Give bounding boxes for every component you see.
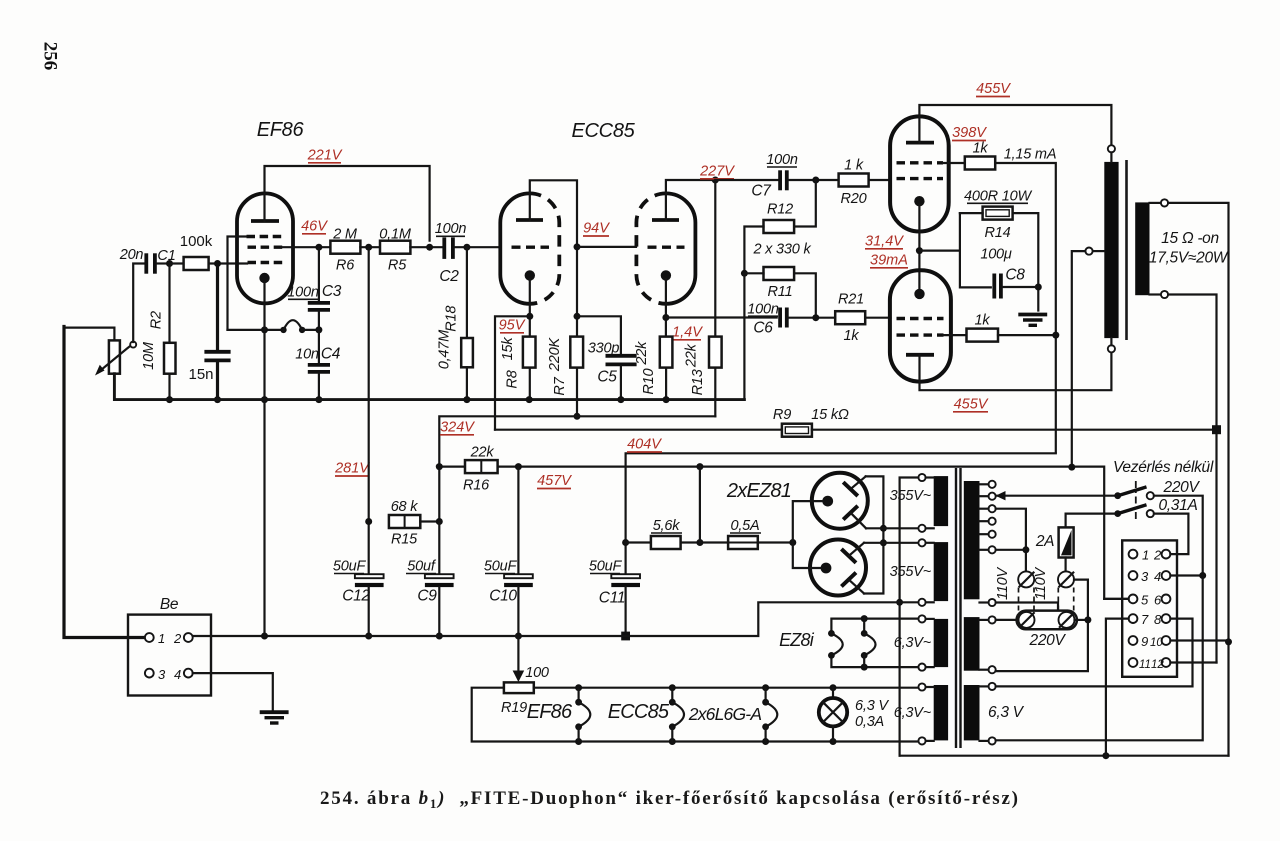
svg-text:C11: C11 (599, 590, 625, 607)
svg-text:46V: 46V (301, 219, 328, 235)
svg-text:7: 7 (1141, 612, 1149, 627)
wire upper plate to 455V line (919, 105, 1111, 145)
wire pins 11-12 to secondary bottom (1170, 661, 1216, 663)
ground bus rail (193, 602, 900, 639)
label 2xEZ81 (726, 480, 791, 502)
resistor R14 400R (919, 189, 1041, 311)
svg-text:R10: R10 (641, 368, 657, 394)
svg-text:R15: R15 (391, 532, 418, 548)
svg-text:R19: R19 (501, 700, 527, 716)
svg-text:100μ: 100μ (980, 247, 1012, 263)
svg-text:EF86: EF86 (527, 701, 573, 723)
label EF86 tube name (257, 119, 305, 141)
resistor R10 22k (634, 337, 672, 404)
bottom frame ground return (900, 638, 1232, 759)
capacitor C6 100n (747, 302, 835, 337)
wire triode1 plate to R7 top (530, 180, 581, 336)
svg-text:10M: 10M (141, 341, 157, 370)
svg-text:3: 3 (158, 667, 166, 682)
svg-text:11: 11 (1139, 659, 1151, 671)
svg-text:22k: 22k (470, 445, 495, 461)
svg-text:355V~: 355V~ (890, 488, 932, 504)
resistor R7 220K (547, 337, 583, 420)
svg-text:17,5V≈20W: 17,5V≈20W (1149, 250, 1229, 267)
potentiometer R19 100 hum balance (501, 636, 549, 716)
wire lower plate 455V to transformer (920, 352, 1112, 390)
terminal row 11 12 (1129, 658, 1171, 671)
rectifier EZ81 upper (812, 473, 868, 529)
capacitor C3 100n screen bypass (287, 247, 342, 330)
wire switch2 to pins 1-2 (1154, 514, 1189, 555)
capacitor C8 (994, 267, 1038, 299)
svg-text:100n: 100n (435, 221, 467, 237)
label 95V (499, 318, 526, 334)
wire switch2 to 2A fuse (1066, 514, 1115, 528)
svg-text:398V: 398V (952, 125, 987, 141)
output transformer secondary (1135, 199, 1168, 298)
wire 404V screen supply line (622, 453, 1056, 576)
mains transformer primary winding (964, 481, 996, 606)
tube ECC85 triode 1 (500, 193, 559, 303)
svg-text:15 Ω -on: 15 Ω -on (1161, 230, 1219, 247)
svg-text:68 k: 68 k (391, 499, 419, 515)
resistor R5 0,1M (379, 227, 443, 274)
svg-text:1k: 1k (973, 141, 989, 157)
svg-text:R11: R11 (768, 284, 793, 300)
svg-text:R9: R9 (773, 407, 791, 423)
terminal strip box (1122, 540, 1177, 676)
svg-text:95V: 95V (499, 318, 526, 334)
svg-text:1,15 mA: 1,15 mA (1004, 147, 1057, 163)
resistor R2 10M (141, 264, 176, 404)
label 457V (537, 473, 572, 489)
svg-text:9: 9 (1141, 634, 1148, 649)
heater connector 6L6 (762, 688, 777, 742)
capacitor C4 10n (295, 330, 341, 403)
heater connector EF86 (575, 688, 590, 742)
capacitor C1 20n (119, 247, 176, 274)
svg-text:1 k: 1 k (844, 158, 864, 174)
svg-text:0,1M: 0,1M (379, 227, 412, 243)
svg-text:C10: C10 (489, 588, 517, 605)
svg-text:R13: R13 (690, 369, 706, 395)
wire cathode1 feedback branch (495, 316, 530, 429)
capacitor C12 50uF (333, 559, 384, 640)
svg-text:324V: 324V (440, 420, 475, 436)
label 281V (334, 461, 370, 477)
svg-text:0,3A: 0,3A (855, 714, 884, 730)
svg-text:110V: 110V (1033, 566, 1049, 600)
switch mains pole 2 (1114, 497, 1197, 517)
mains transformer winding 6,3V no1 (894, 615, 948, 670)
svg-text:R5: R5 (388, 258, 407, 274)
fuse 0,5A (700, 518, 796, 549)
capacitor C10 50uF (484, 467, 533, 640)
svg-text:1,4V: 1,4V (672, 325, 703, 341)
potentiometer R1 input (95, 340, 136, 375)
svg-text:C2: C2 (439, 268, 459, 285)
label ECC85 tube name (572, 120, 636, 142)
EZ81 heater top rail (831, 615, 918, 633)
plug linkage dashes (1019, 588, 1074, 611)
terminal row 5 6 (1129, 592, 1171, 607)
svg-text:C12: C12 (342, 588, 370, 605)
wire plug2 socket right to winding (996, 580, 1092, 672)
wire 281V supply column (365, 247, 372, 574)
switch mains pole 1 (996, 479, 1201, 500)
svg-text:R16: R16 (463, 478, 490, 494)
EF86 cathode lead (261, 282, 268, 403)
terminal row 1 2 (1129, 548, 1171, 563)
svg-text:ECC85: ECC85 (608, 701, 670, 723)
svg-text:2 x 330 k: 2 x 330 k (752, 242, 811, 258)
svg-text:404V: 404V (627, 437, 662, 453)
svg-text:15n: 15n (188, 366, 213, 383)
svg-text:C9: C9 (417, 588, 437, 605)
label 2x6L6G-A heater (688, 704, 762, 724)
svg-text:1k: 1k (975, 313, 991, 329)
wire primary tap to plug1 (996, 509, 1030, 572)
EZ81 heater connector A (828, 630, 843, 659)
wire EZ81 lower cathode (793, 543, 821, 569)
wire pin8 to 6,3V winding (996, 619, 1193, 687)
resistor R8 15k (500, 337, 535, 404)
svg-text:22k: 22k (683, 343, 699, 368)
mains transformer right winding bottom 6,3V (964, 683, 1025, 745)
capacitor 15n (188, 264, 230, 404)
resistor 100k grid stopper (170, 233, 248, 270)
svg-text:220V: 220V (1029, 632, 1067, 649)
resistor R16 22k (436, 445, 498, 494)
EZ81 heater connector B (861, 619, 876, 668)
output transformer core (1125, 160, 1128, 340)
svg-text:R12: R12 (767, 202, 793, 218)
cathode connector bump wire (228, 320, 323, 333)
svg-text:C4: C4 (321, 346, 341, 363)
svg-text:220K: 220K (547, 337, 563, 373)
wire winding to socket left (996, 619, 1018, 621)
svg-text:50uF: 50uF (333, 559, 367, 575)
fuse 2A (1035, 527, 1074, 571)
wire pins 9-10 to secondary top (1170, 639, 1228, 641)
wire w2 bottom ground stub (900, 601, 919, 603)
capacitor C9 50uf (406, 522, 454, 640)
wire upper cathode to bias node (916, 205, 923, 294)
capacitor C5 330p (588, 341, 637, 404)
wire EZ81 upper cathode (793, 501, 823, 542)
svg-text:2 M: 2 M (332, 227, 358, 243)
svg-text:C3: C3 (322, 283, 342, 300)
svg-text:2x6L6G-A: 2x6L6G-A (688, 704, 762, 724)
svg-text:455V: 455V (976, 81, 1011, 97)
mains transformer core (956, 468, 961, 748)
svg-text:355V~: 355V~ (890, 564, 932, 580)
svg-text:15 kΩ: 15 kΩ (811, 407, 849, 423)
label 1,4V (672, 325, 703, 341)
resistor R6 2M (330, 227, 380, 274)
svg-text:ECC85: ECC85 (572, 120, 636, 142)
output transformer primary (1104, 145, 1118, 352)
svg-text:R2: R2 (149, 311, 165, 329)
svg-text:50uF: 50uF (484, 559, 518, 575)
voltage plug 110V no1 (995, 566, 1034, 600)
resistor R18 0,47M (437, 247, 473, 403)
wire secondary bottom to pins 11-12 (1168, 295, 1216, 663)
svg-text:C8: C8 (1005, 267, 1025, 284)
svg-text:2: 2 (173, 631, 182, 646)
page number 256 (40, 42, 61, 71)
label 455V top (976, 81, 1011, 97)
resistor R12 330k (744, 180, 815, 273)
wire EF86 screen to R6 (281, 244, 330, 251)
resistor R13 22k (683, 180, 721, 416)
label 2x330k (752, 242, 811, 258)
svg-text:94V: 94V (583, 221, 610, 237)
svg-text:Vezérlés nélkül: Vezérlés nélkül (1113, 459, 1214, 476)
label 324V (440, 420, 475, 436)
heater bus bottom rail (472, 688, 919, 745)
resistor 5,6k (626, 518, 704, 549)
wire triode2 plate to 227V node (666, 177, 719, 221)
svg-text:2: 2 (1153, 548, 1162, 563)
svg-text:254. ábra b1) „FITE-Duophon“: 254. ábra b1) „FITE-Duophon“ iker-főerős… (320, 788, 1018, 811)
wire triode2 cathode to C6 (662, 279, 776, 337)
svg-text:C1: C1 (157, 248, 175, 264)
heater bus top rail (534, 684, 919, 691)
wire 457V B+ line (439, 463, 1128, 599)
svg-text:50uF: 50uF (589, 559, 623, 575)
svg-text:100: 100 (525, 665, 549, 681)
wire EZ81 plates bus (864, 476, 918, 593)
wire pin7 to ground frame (1106, 619, 1129, 756)
svg-text:100n: 100n (287, 285, 319, 301)
svg-text:EZ8i: EZ8i (779, 630, 815, 650)
wire 221V plate supply (265, 166, 430, 241)
resistor R11 330k (741, 267, 816, 400)
wire C1 to node (157, 260, 173, 267)
resistor R20 1k (839, 158, 891, 208)
svg-text:R6: R6 (336, 258, 355, 274)
svg-text:10n: 10n (295, 347, 319, 363)
tube EF86 (237, 193, 293, 303)
label 398V (952, 125, 987, 141)
wire 94V triode1 plate to triode2 grid (577, 246, 636, 248)
svg-text:12: 12 (1151, 659, 1164, 671)
svg-text:15k: 15k (500, 337, 516, 361)
svg-text:R8: R8 (505, 370, 521, 388)
label 455V bottom (953, 397, 989, 413)
svg-text:110V: 110V (995, 566, 1011, 600)
resistor R15 68k (389, 499, 443, 548)
svg-text:1k: 1k (844, 328, 860, 344)
svg-text:4: 4 (1154, 569, 1161, 584)
resistor R9 15k feedback (495, 407, 1221, 437)
label speaker 15 ohm (1149, 230, 1229, 267)
svg-text:0,31A: 0,31A (1158, 497, 1197, 514)
output transformer centre tap (1072, 248, 1105, 468)
label ECC85 heater (608, 701, 670, 723)
connector box Be (128, 596, 211, 696)
terminal row 7 8 (1129, 612, 1171, 627)
svg-text:R21: R21 (838, 292, 864, 308)
svg-text:0,5A: 0,5A (730, 518, 759, 534)
mains transformer winding 355V no1 (890, 474, 948, 532)
label EF86 heater (527, 701, 573, 723)
svg-text:R14: R14 (985, 225, 1011, 241)
caption (320, 788, 1018, 811)
svg-text:R20: R20 (841, 191, 867, 207)
svg-text:1: 1 (158, 631, 165, 646)
terminal row 9 10 (1129, 634, 1171, 649)
socket 220V (1017, 611, 1077, 649)
wire secondary top to pins 9-10 (1168, 203, 1228, 756)
svg-text:2xEZ81: 2xEZ81 (726, 480, 791, 502)
wire winding to socket top (996, 603, 1058, 611)
capacitor C2 100n (435, 221, 501, 285)
svg-text:4: 4 (174, 667, 181, 682)
svg-text:6,3 V: 6,3 V (855, 698, 889, 714)
mains transformer winding 6,3V no2 (894, 683, 948, 744)
wire pin5 stub (1104, 598, 1128, 600)
resistor screen lower 1k (944, 313, 1060, 342)
svg-text:1: 1 (1142, 548, 1149, 563)
svg-text:227V: 227V (699, 164, 735, 180)
svg-text:C6: C6 (753, 320, 773, 337)
svg-text:22k: 22k (634, 341, 650, 366)
svg-text:10: 10 (1150, 637, 1163, 649)
capacitor C7 100n (715, 152, 838, 200)
wire w1 top to ground column (896, 478, 918, 756)
svg-text:C7: C7 (751, 183, 772, 200)
wire Be pin4 to ground (193, 673, 273, 710)
output tube upper 6L6 (890, 116, 949, 231)
label Vezerles nelkul (1113, 459, 1214, 476)
label EZ81 heater (779, 630, 815, 650)
wire 324V line (439, 416, 715, 521)
svg-text:5,6k: 5,6k (653, 518, 681, 534)
svg-text:2A: 2A (1035, 533, 1054, 550)
svg-text:Be: Be (160, 596, 179, 613)
output tube lower 6L6 (890, 270, 951, 381)
svg-text:256: 256 (40, 42, 61, 71)
resistor screen upper 1k (943, 141, 1056, 453)
svg-text:R18: R18 (444, 306, 460, 332)
wire R7 top to C5 (574, 313, 621, 354)
svg-text:50uf: 50uf (407, 559, 437, 575)
svg-text:330p: 330p (588, 341, 620, 357)
voltage plug 110V no2 (1033, 566, 1074, 600)
wire wiper to C1 (133, 264, 144, 343)
svg-text:5: 5 (1141, 592, 1149, 607)
svg-text:457V: 457V (537, 473, 572, 489)
svg-text:100n: 100n (747, 302, 779, 318)
svg-text:R7: R7 (552, 376, 568, 395)
label 31,4V 39mA (865, 234, 908, 269)
resistor R21 1k (835, 292, 890, 345)
svg-text:8: 8 (1154, 612, 1162, 627)
ground symbol C8 (1018, 315, 1047, 326)
svg-text:3: 3 (1141, 569, 1149, 584)
mains transformer winding 355V no2 (890, 539, 948, 606)
tube ECC85 triode 2 (636, 193, 695, 303)
svg-text:31,4V: 31,4V (865, 234, 904, 250)
wire EF86 cathode to ground bus (263, 400, 265, 636)
heater connector ECC85 (669, 688, 684, 742)
EZ81 heater bottom rail (831, 655, 918, 670)
label 227V (699, 164, 735, 180)
wire triode1 cathode (526, 279, 533, 337)
svg-text:400R 10W: 400R 10W (964, 189, 1032, 205)
svg-text:281V: 281V (334, 461, 370, 477)
mains transformer right winding mid (964, 616, 996, 673)
rectifier EZ81 lower (810, 540, 866, 596)
ground symbol input (260, 712, 289, 723)
svg-text:220V: 220V (1163, 479, 1201, 496)
svg-text:20n: 20n (119, 247, 144, 263)
wire switch1 to pins 3-4 (996, 496, 1206, 741)
switch linkage (1135, 481, 1137, 521)
grid return rail (114, 374, 744, 400)
wire left rail to Be pin1 (64, 327, 145, 638)
svg-text:100k: 100k (180, 233, 213, 250)
label 221V (307, 148, 343, 164)
svg-text:6: 6 (1154, 592, 1162, 607)
label 1,15 mA (1004, 147, 1057, 163)
svg-text:39mA: 39mA (870, 253, 908, 269)
svg-text:455V: 455V (954, 397, 989, 413)
svg-text:221V: 221V (307, 148, 343, 164)
wire 457V to fuse node (699, 467, 701, 543)
label 94V (583, 221, 610, 237)
svg-text:100n: 100n (766, 152, 798, 168)
svg-text:0,47M: 0,47M (437, 329, 453, 369)
label 46V (301, 219, 328, 235)
label 404V (627, 437, 662, 453)
wire pot top to left rail (64, 328, 114, 341)
svg-text:C5: C5 (597, 369, 617, 386)
capacitor C11 50uF (589, 559, 640, 641)
terminal row 3 4 (1129, 569, 1171, 584)
pilot lamp 6,3V 0,3A (819, 688, 890, 742)
svg-text:6,3 V: 6,3 V (988, 704, 1025, 721)
svg-text:EF86: EF86 (257, 119, 305, 141)
wire EF86 suppressor to bump wire (228, 237, 247, 330)
